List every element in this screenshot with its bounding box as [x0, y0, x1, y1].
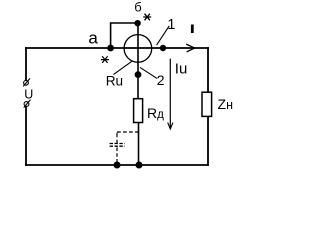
svg-text:Zн: Zн — [218, 96, 234, 112]
wire: right vertical lower (from Zн to bottom) — [207, 116, 209, 166]
bottom junction dot right — [136, 162, 143, 169]
svg-text:2: 2 — [157, 72, 165, 88]
dashed branch horizontal — [117, 131, 139, 133]
svg-text:a: a — [88, 29, 98, 48]
wire: secondary vertical from б through circle to Rд — [137, 23, 139, 99]
svg-text:U: U — [24, 87, 33, 101]
svg-text:1: 1 — [167, 17, 175, 33]
svg-text:Ru: Ru — [106, 73, 123, 88]
dashed branch vertical lower — [116, 147, 118, 163]
wire: top horizontal main (primary) — [25, 47, 209, 49]
wire: riser from node a up and over to node б — [111, 23, 138, 48]
dashed branch vertical upper — [116, 133, 118, 144]
bottom junction dot left — [114, 162, 121, 169]
polarity asterisk below node a — [101, 56, 109, 63]
load Zн box — [202, 92, 212, 116]
leader line for label 1 — [157, 26, 170, 45]
node 1 junction dot — [160, 45, 166, 51]
leader line for label 2 — [140, 67, 157, 78]
leader line for label Ru — [113, 61, 132, 74]
wire: right vertical upper (to Zн) — [207, 47, 209, 92]
current arrow Iu (down) — [169, 59, 171, 129]
resistor Rд box — [134, 99, 143, 123]
node б junction dot — [134, 20, 140, 26]
wire: left vertical lower (from terminal U to bottom) — [25, 106, 27, 165]
terminal upper (clamp) — [23, 78, 30, 86]
wire: secondary vertical from Rд to bottom wire — [138, 122, 140, 165]
transformer TA circle — [124, 35, 152, 63]
terminal lower (clamp) — [24, 100, 31, 108]
wire: bottom horizontal — [25, 164, 209, 166]
node a junction dot — [107, 45, 114, 52]
current arrow I on top wire — [186, 44, 194, 52]
polarity asterisk near node б — [143, 14, 151, 21]
node 2 junction dot — [135, 71, 142, 78]
stray capacitance plates (dashed) — [110, 143, 125, 145]
wire: left vertical upper (to terminal U) — [25, 47, 27, 80]
svg-text:Iu: Iu — [175, 61, 188, 78]
label I — [191, 25, 194, 34]
svg-text:б: б — [134, 0, 141, 14]
